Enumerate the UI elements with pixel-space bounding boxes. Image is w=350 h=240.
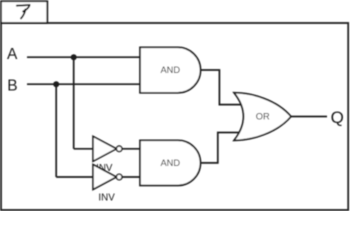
svg-text:B: B: [7, 78, 17, 95]
svg-text:Q: Q: [331, 108, 344, 127]
svg-text:AND: AND: [160, 158, 180, 168]
svg-text:A: A: [7, 46, 18, 63]
svg-text:INV: INV: [98, 192, 115, 203]
svg-text:AND: AND: [160, 65, 180, 75]
svg-text:OR: OR: [256, 112, 270, 122]
